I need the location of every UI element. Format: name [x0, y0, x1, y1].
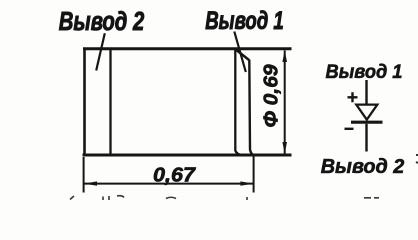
- right cap boundary line: [235, 49, 243, 155]
- svg-text:Вывод 1: Вывод 1: [205, 7, 284, 35]
- right cap chamfer: [235, 49, 250, 61]
- diode anode wire: [365, 80, 367, 106]
- cut-off caption fragments at bottom edge: [70, 196, 379, 200]
- diode VD triangle: [356, 105, 377, 120]
- diameter dimension line Ф0,69: [284, 51, 286, 154]
- package body left edge: [83, 48, 86, 157]
- leader line to lead 2: [96, 33, 105, 70]
- package right edge: [249, 60, 254, 156]
- leader line to lead 1: [234, 32, 246, 73]
- svg-text:Вывод 2: Вывод 2: [59, 7, 145, 36]
- anode plus sign: [348, 92, 358, 102]
- package body bottom edge: [83, 154, 292, 157]
- svg-text:Вывод 1: Вывод 1: [326, 61, 403, 82]
- length dimension extension line right: [253, 156, 255, 193]
- diode cathode wire: [365, 124, 367, 152]
- right margin speck: [416, 155, 418, 163]
- package body top edge: [83, 47, 292, 50]
- length dimension extension line left: [83, 157, 85, 193]
- diode cathode bar: [351, 121, 383, 124]
- svg-text:0,67: 0,67: [153, 164, 196, 186]
- svg-text:Вывод 2: Вывод 2: [321, 156, 404, 178]
- svg-text:Ф 0,69: Ф 0,69: [260, 64, 282, 128]
- length dimension line 0,67: [84, 183, 253, 185]
- left cap boundary line: [109, 48, 111, 156]
- cathode minus sign: [345, 128, 354, 130]
